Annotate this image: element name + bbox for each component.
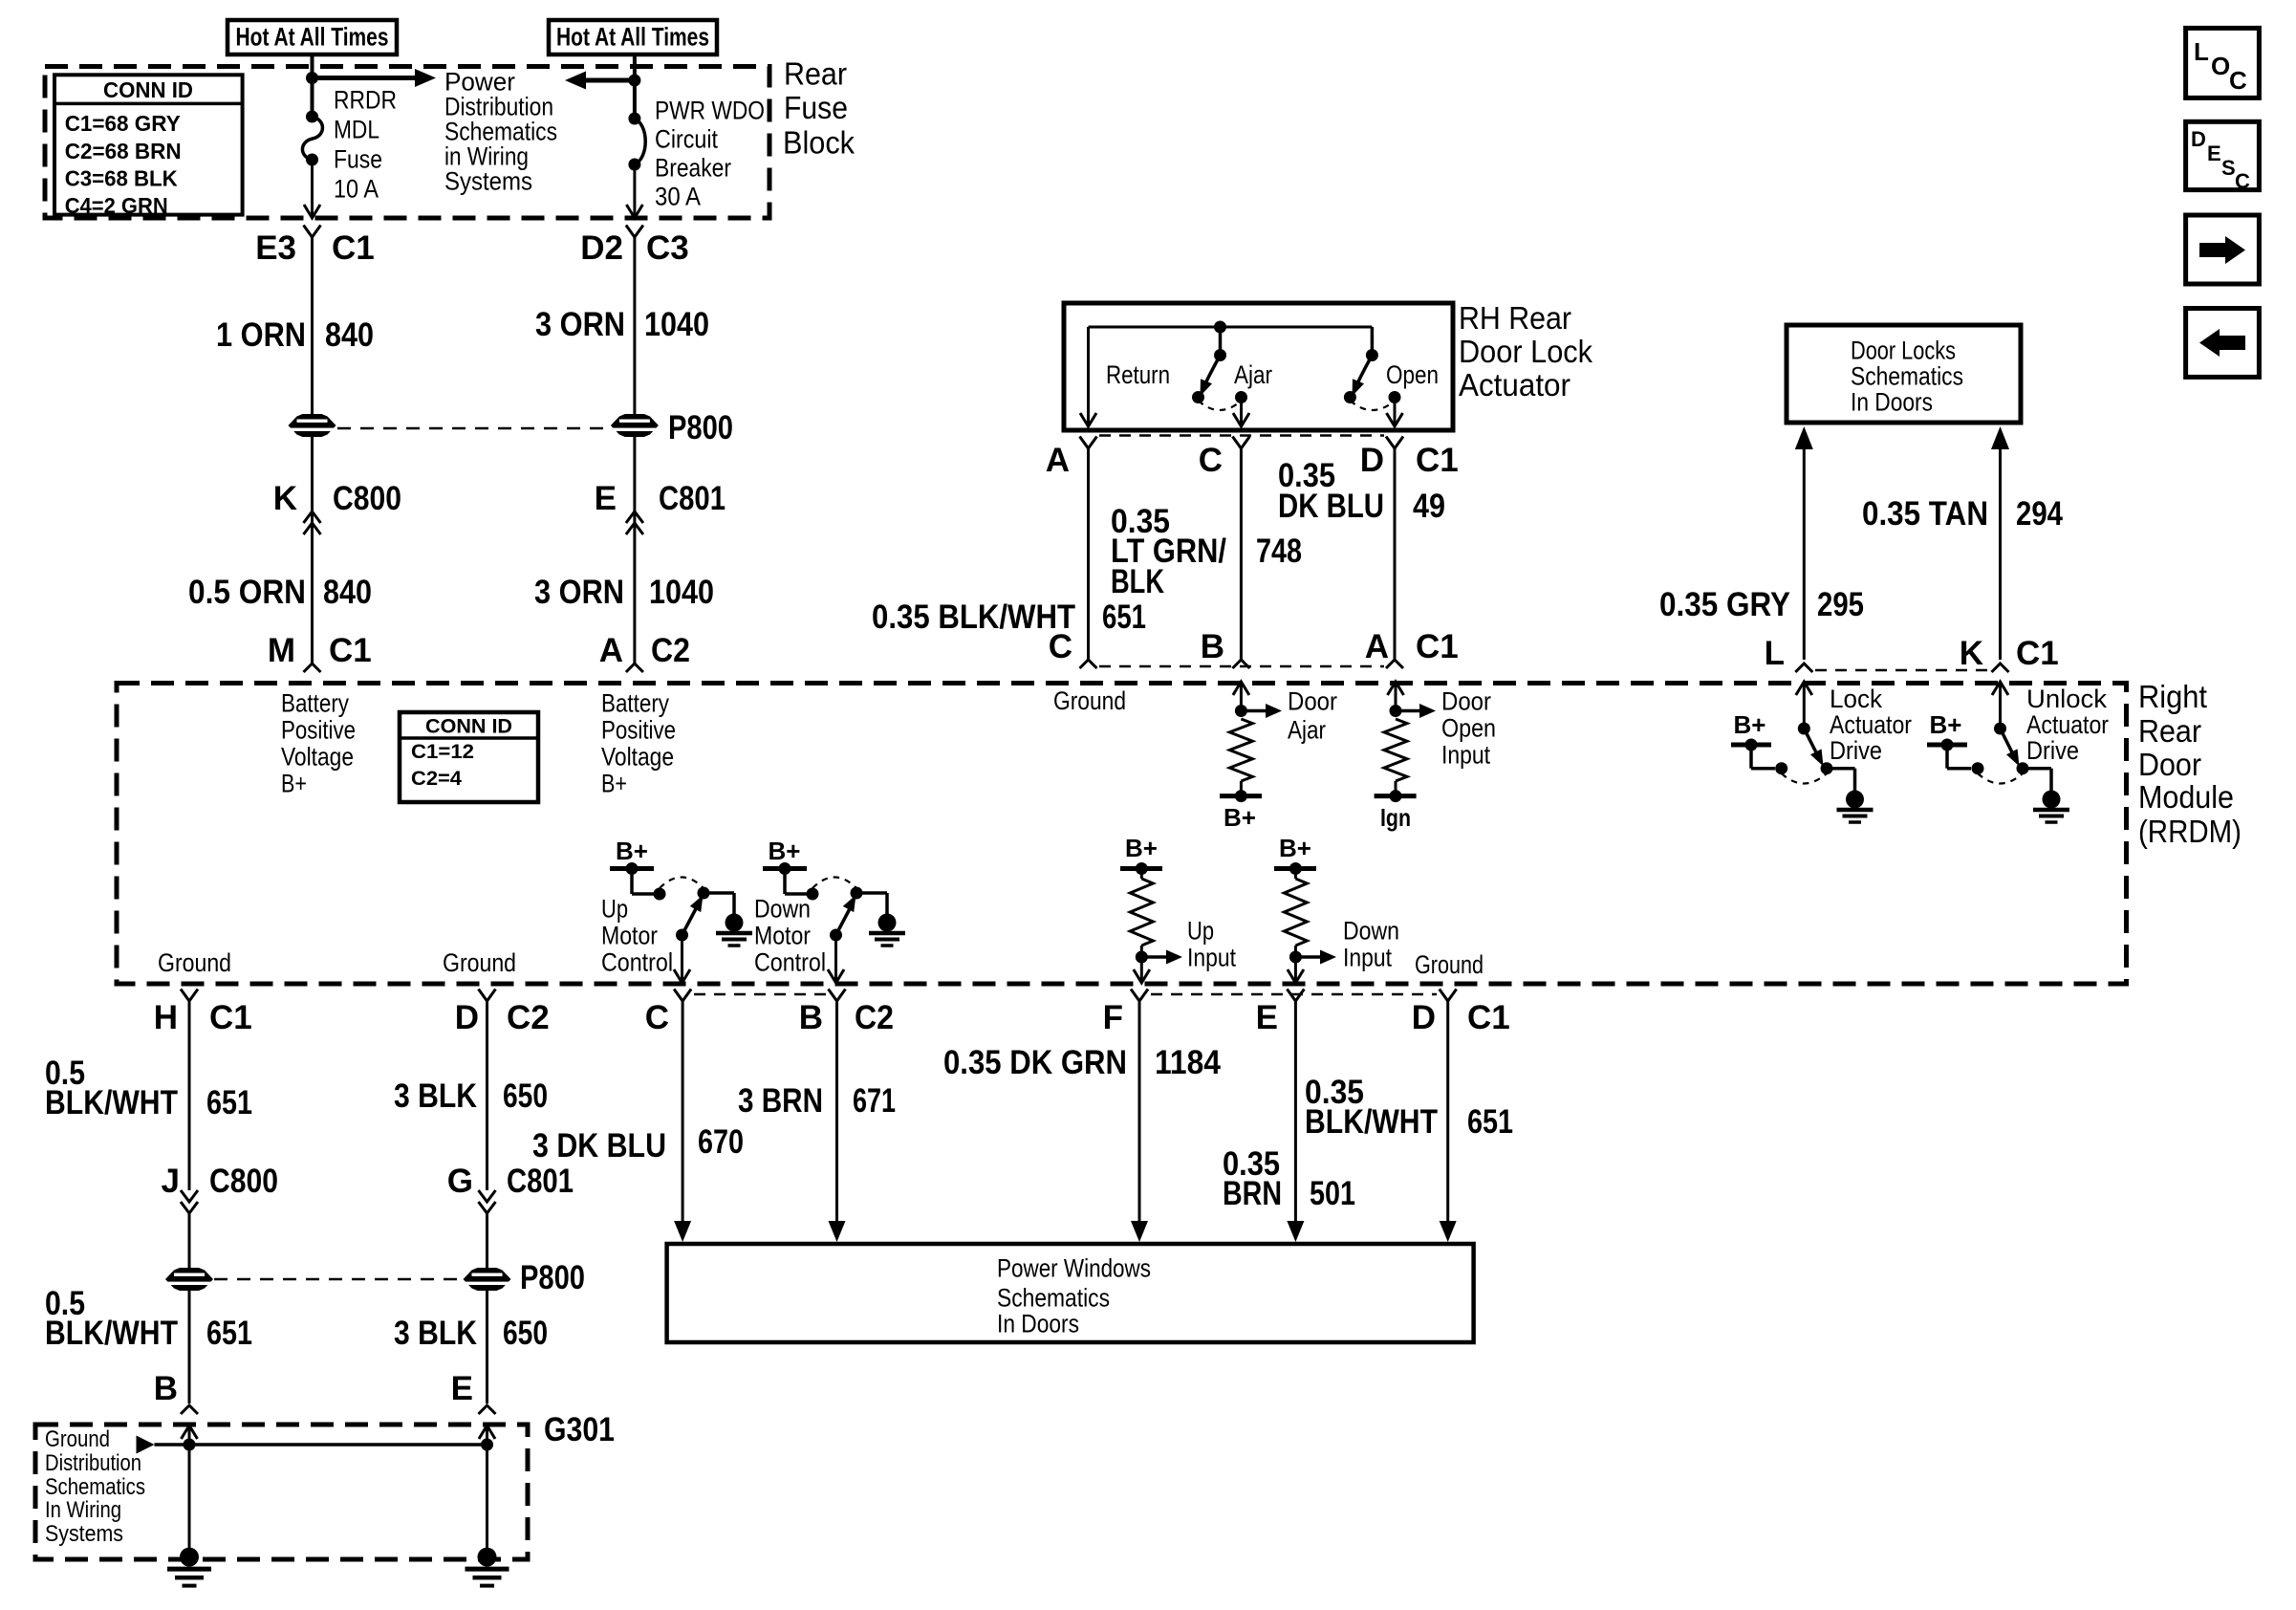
svg-text:3 BLK: 3 BLK <box>394 1315 477 1352</box>
svg-text:C1=68 GRY: C1=68 GRY <box>65 111 181 136</box>
svg-text:49: 49 <box>1413 488 1445 525</box>
svg-text:Ajar: Ajar <box>1234 360 1272 389</box>
down input signal arrow <box>1295 955 1322 959</box>
ground bus junction B <box>184 1439 196 1451</box>
svg-text:3 ORN: 3 ORN <box>535 306 625 343</box>
window motor wire B with arrow <box>835 1001 838 1223</box>
svg-text:Fuse: Fuse <box>784 90 848 125</box>
open switch stem <box>1371 327 1375 356</box>
svg-text:0.5 ORN: 0.5 ORN <box>188 574 306 611</box>
svg-text:Drive: Drive <box>1830 736 1882 765</box>
door ajar B+ terminal <box>1240 781 1243 796</box>
svg-text:K: K <box>273 480 297 517</box>
ground entry arrow B <box>182 1425 198 1439</box>
splice P800 (ground) <box>464 1268 511 1291</box>
open switch contacts and motion arc <box>1344 391 1356 403</box>
svg-text:BRN: BRN <box>1223 1175 1282 1212</box>
nav icon previous page arrow <box>2186 309 2260 378</box>
lock drive ground contact <box>1821 762 1833 774</box>
wire to C801 <box>633 437 636 664</box>
svg-text:Hot At All Times: Hot At All Times <box>236 23 389 52</box>
branch arrow to Power Distribution (left-pointing) <box>582 78 635 83</box>
ajar output wire with arrow <box>1240 398 1243 426</box>
svg-text:501: 501 <box>1310 1175 1355 1212</box>
svg-text:A: A <box>599 632 623 669</box>
svg-text:651: 651 <box>1102 598 1146 636</box>
wire pin D to module <box>1394 448 1397 660</box>
ground wire D <box>486 1001 488 1190</box>
module pin B <box>1232 660 1249 668</box>
down motor feed wire <box>783 869 787 895</box>
svg-text:651: 651 <box>206 1084 252 1121</box>
down motor ground contact <box>851 887 863 900</box>
unlock drive ground contact <box>2017 762 2029 774</box>
in-line connector chevrons C801 <box>626 511 643 534</box>
svg-text:K: K <box>1960 635 1983 672</box>
svg-text:C2=4: C2=4 <box>411 768 462 790</box>
CONN ID table (RRDM) <box>400 712 538 802</box>
Return leg wire with arrow <box>1087 327 1090 425</box>
svg-text:C2: C2 <box>855 999 894 1036</box>
svg-text:Voltage: Voltage <box>281 743 354 772</box>
lock drive feed wire <box>1749 745 1753 769</box>
svg-text:C800: C800 <box>209 1163 278 1200</box>
svg-text:C800: C800 <box>333 480 401 517</box>
svg-text:Up: Up <box>1187 917 1214 946</box>
svg-text:Motor: Motor <box>754 922 811 950</box>
svg-text:Control: Control <box>601 948 673 977</box>
ground wire D with arrow <box>1446 1001 1449 1223</box>
wire 0.35 GRY 295 with up arrow <box>1795 426 1813 449</box>
svg-text:Return: Return <box>1106 360 1170 389</box>
svg-text:B: B <box>799 999 823 1036</box>
lock drive entry arrow <box>1796 682 1812 695</box>
power feed box Hot At All Times (left) <box>227 20 397 54</box>
svg-text:In Doors: In Doors <box>997 1310 1079 1338</box>
svg-text:B+: B+ <box>1224 803 1256 832</box>
svg-text:3 BLK: 3 BLK <box>394 1077 477 1115</box>
svg-text:1040: 1040 <box>649 574 714 611</box>
up input node <box>1140 946 1143 957</box>
window motor wire C with arrow <box>682 1001 684 1223</box>
unlock drive motion arc <box>1978 773 2023 784</box>
lock drive ground <box>1837 791 1874 823</box>
nav icon DESC <box>2186 121 2260 189</box>
nav icon next page arrow <box>2186 215 2260 284</box>
up input resistor <box>1140 869 1143 880</box>
svg-text:C2=68 BRN: C2=68 BRN <box>65 139 182 163</box>
svg-text:A: A <box>1046 442 1070 479</box>
fuse RRDR MDL 10A <box>302 117 322 160</box>
svg-text:Ground: Ground <box>1053 686 1126 715</box>
svg-text:B+: B+ <box>1125 834 1158 862</box>
svg-text:C4=2 GRN: C4=2 GRN <box>65 193 168 218</box>
door open Ign terminal <box>1395 781 1397 796</box>
door ajar signal arrow <box>1241 709 1267 713</box>
module pin K and C1 <box>1992 664 2009 672</box>
up motor output wire with arrow <box>681 935 683 981</box>
svg-text:E: E <box>451 1370 473 1407</box>
svg-text:B: B <box>154 1370 178 1407</box>
svg-text:B+: B+ <box>601 770 627 798</box>
lock drive feed contact <box>1775 762 1787 774</box>
junction node on PWR WDO feed <box>628 75 640 87</box>
svg-text:Open: Open <box>1441 714 1496 743</box>
circuit breaker PWR WDO 30A <box>635 119 645 164</box>
unlock drive entry arrow <box>1992 682 2008 695</box>
svg-text:C1: C1 <box>332 229 375 267</box>
svg-text:G301: G301 <box>544 1411 615 1448</box>
svg-text:C1: C1 <box>209 999 252 1036</box>
svg-text:M: M <box>268 632 295 669</box>
svg-text:Fuse: Fuse <box>334 145 382 174</box>
svg-text:Input: Input <box>1343 944 1392 972</box>
svg-text:Module: Module <box>2138 779 2234 815</box>
svg-text:Right: Right <box>2138 679 2207 714</box>
power feed box Hot At All Times (right) <box>549 20 717 54</box>
svg-text:748: 748 <box>1256 533 1302 570</box>
actuator pin A <box>1080 437 1097 449</box>
door open node <box>1390 705 1402 717</box>
svg-text:Schematics: Schematics <box>997 1284 1110 1313</box>
ground drop wire B <box>188 1445 191 1549</box>
down motor switch blade with arrow <box>836 909 851 936</box>
svg-text:Breaker: Breaker <box>655 154 731 183</box>
svg-text:BLK/WHT: BLK/WHT <box>1305 1103 1438 1141</box>
svg-text:Schematics: Schematics <box>45 1474 145 1500</box>
svg-text:3 BRN: 3 BRN <box>738 1082 823 1120</box>
svg-text:Ground: Ground <box>443 948 516 977</box>
svg-text:RH Rear: RH Rear <box>1459 300 1571 336</box>
door open pull-up resistor <box>1384 719 1407 781</box>
svg-text:B: B <box>1201 628 1224 665</box>
svg-text:1184: 1184 <box>1155 1044 1221 1081</box>
svg-text:Hot At All Times: Hot At All Times <box>556 23 709 52</box>
svg-text:PWR WDO: PWR WDO <box>655 97 765 125</box>
module pin M of C1 <box>304 664 321 672</box>
wire from left Hot feed <box>311 54 314 117</box>
door ajar entry arrow <box>1233 682 1249 695</box>
actuator pin C <box>1232 437 1249 449</box>
window switch wire E with arrow <box>1294 1001 1297 1223</box>
svg-text:Down: Down <box>754 895 811 924</box>
svg-text:L: L <box>2194 37 2209 66</box>
svg-text:Ground: Ground <box>45 1426 110 1452</box>
svg-text:C1: C1 <box>1416 442 1459 479</box>
svg-text:Door Locks: Door Locks <box>1851 337 1956 365</box>
svg-text:C: C <box>2229 66 2247 95</box>
svg-text:0.35 DK GRN: 0.35 DK GRN <box>943 1044 1127 1081</box>
svg-text:C801: C801 <box>659 480 726 517</box>
svg-text:Schematics: Schematics <box>1851 362 1963 391</box>
svg-text:S: S <box>2221 156 2236 180</box>
svg-text:295: 295 <box>1817 586 1864 623</box>
svg-text:Block: Block <box>783 125 855 161</box>
down input node <box>1294 946 1297 957</box>
wire below breaker with exit arrow <box>633 164 636 216</box>
svg-text:Rear: Rear <box>2138 713 2201 749</box>
svg-text:E: E <box>2207 141 2221 165</box>
up motor ground <box>716 914 752 946</box>
svg-text:Up: Up <box>601 895 628 924</box>
svg-text:Ign: Ign <box>1380 803 1411 832</box>
RH Rear Door Lock Actuator box <box>1064 303 1453 430</box>
actuator internal junction node <box>1214 321 1226 334</box>
wire splice to E <box>486 1291 488 1403</box>
wire below fuse with exit arrow <box>311 160 314 216</box>
svg-text:(RRDM): (RRDM) <box>2138 814 2242 849</box>
svg-text:Rear: Rear <box>784 56 847 92</box>
splice link dashed line <box>337 427 610 430</box>
svg-text:C2: C2 <box>507 999 550 1036</box>
svg-text:CONN ID: CONN ID <box>425 716 512 738</box>
ground wire H <box>188 1001 191 1190</box>
ground entry arrow E <box>479 1425 495 1439</box>
down input output wire with arrow <box>1294 957 1297 981</box>
lock drive blade with arrow <box>1804 729 1817 754</box>
up motor ground contact <box>698 887 710 900</box>
svg-text:Battery: Battery <box>281 689 349 718</box>
wire to C800 <box>311 437 314 664</box>
svg-text:C1=12: C1=12 <box>411 741 474 763</box>
Door Locks Schematics In Doors box <box>1787 325 2021 423</box>
module pin C <box>674 990 691 1002</box>
actuator connector dashed line <box>1099 434 1384 437</box>
svg-text:P800: P800 <box>520 1259 585 1296</box>
module pin H of C1 <box>181 990 198 1002</box>
svg-text:D: D <box>455 999 479 1036</box>
svg-text:Door Lock: Door Lock <box>1459 334 1592 369</box>
open switch blade with arrow <box>1355 356 1373 390</box>
down motor feed contact <box>807 888 819 901</box>
svg-text:840: 840 <box>325 316 374 354</box>
unlock drive ground <box>2033 791 2069 823</box>
svg-text:Input: Input <box>1441 741 1490 770</box>
svg-text:1 ORN: 1 ORN <box>216 316 306 354</box>
module pin A of C2 <box>626 664 643 672</box>
svg-text:E: E <box>595 480 617 517</box>
open output wire with arrow <box>1394 398 1397 426</box>
up input signal arrow <box>1141 955 1168 959</box>
CONN ID table (fuse block) <box>54 75 243 214</box>
svg-text:D: D <box>1412 999 1436 1036</box>
module pin F <box>1131 990 1148 1002</box>
splice on BLK/WHT 651 <box>165 1268 213 1291</box>
svg-text:670: 670 <box>698 1123 744 1161</box>
svg-text:E: E <box>1256 999 1278 1036</box>
svg-text:C1: C1 <box>329 632 372 669</box>
svg-text:Positive: Positive <box>281 716 356 745</box>
svg-text:G: G <box>447 1163 473 1200</box>
svg-text:Motor: Motor <box>601 922 658 950</box>
module pin D of C2 <box>479 990 496 1002</box>
svg-text:Distribution: Distribution <box>45 1450 141 1476</box>
junction node on RRDR feed <box>306 72 318 84</box>
ground bus arrow <box>137 1436 155 1454</box>
svg-text:Lock: Lock <box>1830 685 1882 713</box>
nav icon LOC <box>2186 28 2260 98</box>
wire J to splice <box>188 1213 191 1268</box>
svg-text:Positive: Positive <box>601 716 676 745</box>
svg-text:Door: Door <box>2138 747 2201 782</box>
svg-text:C1: C1 <box>1416 628 1459 665</box>
wire splice to B <box>188 1291 191 1403</box>
svg-text:In Doors: In Doors <box>1851 388 1933 417</box>
svg-text:E3: E3 <box>255 229 296 267</box>
svg-text:Battery: Battery <box>601 689 669 718</box>
svg-text:F: F <box>1103 999 1123 1036</box>
svg-text:Unlock: Unlock <box>2026 685 2108 713</box>
door ajar pull-up resistor <box>1229 719 1252 781</box>
ajar switch blade with arrow <box>1203 356 1221 390</box>
svg-text:650: 650 <box>503 1077 548 1115</box>
door open entry arrow <box>1388 682 1404 695</box>
svg-text:A: A <box>1365 628 1389 665</box>
svg-text:O: O <box>2211 52 2230 80</box>
wire G to splice <box>486 1213 488 1268</box>
svg-text:In Wiring: In Wiring <box>45 1497 121 1523</box>
svg-text:C: C <box>645 999 669 1036</box>
svg-text:P800: P800 <box>668 409 733 446</box>
svg-text:MDL: MDL <box>334 116 379 144</box>
svg-text:Actuator: Actuator <box>2026 710 2109 739</box>
svg-text:Actuator: Actuator <box>1830 710 1912 739</box>
module pin E <box>1287 990 1304 1002</box>
down motor ground <box>869 914 905 946</box>
svg-text:D2: D2 <box>580 229 623 267</box>
bottom connector C2 dashed line <box>694 993 826 996</box>
module pin A and C1 <box>1386 660 1403 668</box>
svg-text:Voltage: Voltage <box>601 743 674 772</box>
svg-text:C: C <box>1199 442 1223 479</box>
down input resistor <box>1294 869 1297 880</box>
ajar switch contacts and motion arc <box>1192 391 1204 403</box>
module pin C <box>1080 660 1097 668</box>
svg-text:0.35 TAN: 0.35 TAN <box>1862 495 1988 533</box>
svg-text:650: 650 <box>503 1315 548 1352</box>
up motor feed contact <box>654 888 666 901</box>
svg-text:CONN ID: CONN ID <box>103 77 193 102</box>
svg-text:Ground: Ground <box>1415 950 1484 979</box>
svg-text:671: 671 <box>853 1082 896 1120</box>
module pin D of C1 <box>1440 990 1457 1002</box>
Right Rear Door Module dashed enclosure <box>117 684 2127 985</box>
svg-text:D: D <box>1360 442 1384 479</box>
wire 0.35 TAN 294 with up arrow <box>1991 426 2009 449</box>
wire 3 ORN 1040 <box>633 237 636 414</box>
branch arrow to Power Distribution Schematics <box>313 76 419 80</box>
svg-text:3 DK BLU: 3 DK BLU <box>532 1127 666 1164</box>
svg-text:Circuit: Circuit <box>655 125 718 154</box>
svg-text:C2: C2 <box>651 632 690 669</box>
wire 1 ORN 840 <box>311 237 314 414</box>
connector pin E3 of C1 <box>304 226 321 238</box>
svg-text:Input: Input <box>1187 944 1236 972</box>
ground symbol G301 right <box>466 1548 509 1586</box>
svg-text:Door: Door <box>1288 687 1337 716</box>
ground drop wire E <box>486 1445 488 1549</box>
svg-text:651: 651 <box>206 1315 252 1352</box>
G301 dashed enclosure <box>35 1425 528 1559</box>
svg-text:C3=68 BLK: C3=68 BLK <box>65 166 178 191</box>
ajar switch stem <box>1219 327 1223 356</box>
window switch wire F with arrow <box>1138 1001 1141 1223</box>
up input output wire with arrow <box>1140 957 1143 981</box>
svg-text:DK BLU: DK BLU <box>1278 488 1384 525</box>
svg-text:Down: Down <box>1343 917 1399 946</box>
svg-text:B+: B+ <box>1734 710 1766 739</box>
svg-text:C: C <box>1049 628 1072 665</box>
door open signal arrow <box>1396 709 1421 713</box>
ground bus junction E <box>481 1439 493 1451</box>
svg-text:C3: C3 <box>646 229 689 267</box>
svg-text:Systems: Systems <box>444 167 532 196</box>
svg-text:Control: Control <box>754 948 826 977</box>
svg-text:D: D <box>2191 127 2206 151</box>
connector pin D2 of C3 <box>626 226 643 238</box>
Rear Fuse Block dashed enclosure <box>45 67 769 219</box>
svg-text:B+: B+ <box>1930 710 1962 739</box>
svg-text:1040: 1040 <box>644 306 709 343</box>
door ajar node <box>1235 705 1247 717</box>
unlock drive node <box>1994 723 2006 735</box>
svg-text:B+: B+ <box>769 837 801 865</box>
wire from right Hot feed <box>633 55 637 119</box>
wire pin A to module <box>1087 448 1090 660</box>
svg-text:3 ORN: 3 ORN <box>534 574 624 611</box>
svg-text:Door: Door <box>1441 687 1491 716</box>
svg-text:C: C <box>2235 169 2250 193</box>
unlock drive feed wire <box>1945 745 1949 769</box>
svg-text:Power Windows: Power Windows <box>997 1254 1151 1283</box>
svg-text:J: J <box>162 1163 180 1200</box>
unlock drive blade with arrow <box>2001 729 2014 754</box>
svg-text:Drive: Drive <box>2026 736 2079 765</box>
svg-text:651: 651 <box>1467 1103 1513 1141</box>
svg-text:Ground: Ground <box>158 948 231 977</box>
unlock drive feed contact <box>1972 762 1984 774</box>
lock drive node <box>1798 723 1810 735</box>
down motor output wire with arrow <box>834 935 837 981</box>
up motor motion arc <box>660 878 704 889</box>
svg-text:C1: C1 <box>1467 999 1510 1036</box>
svg-text:0.35 GRY: 0.35 GRY <box>1659 586 1790 623</box>
svg-text:Open: Open <box>1386 360 1439 389</box>
svg-text:Systems: Systems <box>45 1521 123 1547</box>
wire pin C to module <box>1240 448 1243 660</box>
svg-text:840: 840 <box>323 574 372 611</box>
svg-text:H: H <box>154 999 178 1036</box>
module pin L <box>1795 664 1812 672</box>
svg-text:Ajar: Ajar <box>1288 716 1326 745</box>
splice P800 <box>611 414 659 437</box>
svg-text:RRDR: RRDR <box>334 86 397 115</box>
svg-text:Actuator: Actuator <box>1459 367 1570 402</box>
svg-text:BLK/WHT: BLK/WHT <box>45 1315 178 1352</box>
ground symbol G301 left <box>167 1548 211 1586</box>
actuator lower connector dashed line <box>1099 665 1384 668</box>
actuator internal bus wire <box>1089 326 1373 329</box>
splice link dashed line (ground) <box>214 1278 463 1281</box>
svg-text:BLK/WHT: BLK/WHT <box>45 1084 178 1121</box>
svg-text:30 A: 30 A <box>655 183 701 211</box>
svg-text:C801: C801 <box>507 1163 574 1200</box>
up motor feed wire <box>630 869 634 895</box>
lock connector dashed line <box>1815 669 1989 672</box>
svg-text:L: L <box>1765 635 1785 672</box>
svg-text:0.35 BLK/WHT: 0.35 BLK/WHT <box>872 598 1075 636</box>
down motor motion arc <box>812 878 856 889</box>
